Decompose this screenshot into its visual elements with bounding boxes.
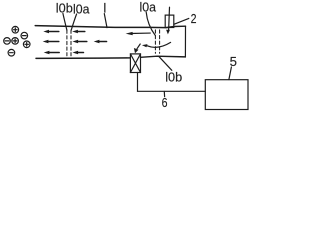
duct top wall 1 <box>35 26 185 28</box>
wire 6 vertical from fan <box>137 73 139 92</box>
airflow arrow row2 right <box>94 40 107 43</box>
intake arrow into fan 4 <box>134 44 140 53</box>
leader 10b <box>63 13 67 30</box>
duct right wall <box>184 26 186 57</box>
duct bottom wall (right of fan) <box>141 56 186 57</box>
electrode grid 10b (right dashed line, outer) <box>159 30 161 53</box>
airflow arrow row3 left <box>44 51 60 54</box>
ion negative <box>21 32 28 39</box>
discharge unit 2 <box>165 15 174 27</box>
ion positive <box>12 26 19 33</box>
airflow arrow row1 right <box>72 30 85 33</box>
leader 10a <box>71 14 76 30</box>
wire 6 horizontal to control unit <box>138 90 206 92</box>
feed line through unit 2 <box>168 7 171 30</box>
airflow arrow row2 mid <box>72 40 86 43</box>
fan 4 (crossed box) <box>130 54 140 73</box>
leader 5 <box>229 67 232 80</box>
svg-text:6: 6 <box>162 95 168 110</box>
airflow arrow row1 left <box>43 30 59 33</box>
leader 2 <box>174 18 189 24</box>
airflow arrow long (into clean section) <box>126 32 151 35</box>
ion negative <box>4 38 11 45</box>
ion positive <box>12 38 19 45</box>
duct bottom wall (left of fan) <box>36 57 130 60</box>
ion negative <box>8 49 15 56</box>
electrode grid 10b (left dashed line) <box>66 30 68 57</box>
airflow arrow row2 left <box>43 40 59 43</box>
control unit 5 <box>205 80 248 110</box>
leader 1 <box>104 14 107 28</box>
svg-text:l0b: l0b <box>165 70 182 85</box>
svg-text:l0a: l0a <box>73 1 90 16</box>
svg-text:2: 2 <box>191 11 197 26</box>
leader 10a right <box>146 12 155 35</box>
airflow arrow row3 right <box>72 51 83 54</box>
leader 6 <box>163 92 165 97</box>
electrode grid 10a (left dashed line) <box>70 30 72 57</box>
circulation arc arrow <box>142 42 171 47</box>
injection arrowhead from 2 <box>166 30 170 35</box>
ion positive <box>23 41 30 48</box>
svg-text:5: 5 <box>230 54 237 69</box>
electrode grid 10a (right dashed line, inner) <box>154 30 156 53</box>
svg-text:l0b: l0b <box>56 1 73 16</box>
leader 10b right <box>159 56 172 70</box>
svg-text:l0a: l0a <box>140 0 157 14</box>
